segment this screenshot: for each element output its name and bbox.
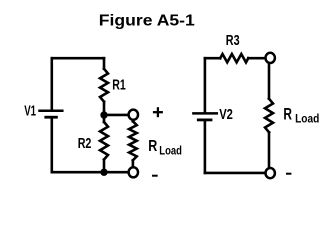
svg-text:R: R — [283, 105, 292, 123]
svg-text:Load: Load — [159, 144, 182, 158]
svg-text:R3: R3 — [226, 33, 240, 49]
svg-text:R: R — [148, 137, 157, 155]
svg-text:V2: V2 — [219, 107, 233, 123]
svg-text:V1: V1 — [24, 102, 36, 119]
svg-text:Figure A5-1: Figure A5-1 — [99, 13, 195, 30]
svg-text:R2: R2 — [78, 136, 92, 152]
svg-text:Load: Load — [295, 112, 319, 126]
svg-text:R1: R1 — [112, 78, 126, 94]
